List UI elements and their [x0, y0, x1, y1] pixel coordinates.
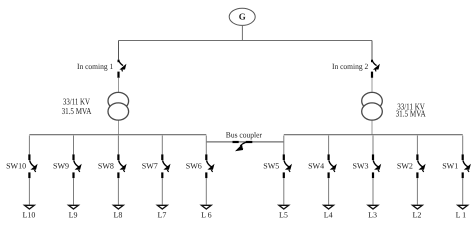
svg-text:31.5 MVA: 31.5 MVA — [396, 109, 426, 119]
svg-text:SW3: SW3 — [353, 161, 369, 170]
svg-text:SW8: SW8 — [98, 161, 114, 170]
svg-text:SW2: SW2 — [397, 161, 413, 170]
svg-text:SW7: SW7 — [142, 161, 158, 170]
svg-text:Bus coupler: Bus coupler — [226, 131, 263, 140]
svg-text:L 1: L 1 — [456, 211, 467, 220]
svg-text:SW1: SW1 — [442, 161, 458, 170]
svg-text:In coming 1: In coming 1 — [77, 62, 113, 71]
svg-text:L5: L5 — [279, 211, 288, 220]
svg-text:SW4: SW4 — [308, 161, 324, 170]
svg-text:SW10: SW10 — [6, 161, 26, 170]
svg-text:L 6: L 6 — [201, 211, 212, 220]
svg-text:L3: L3 — [368, 211, 377, 220]
svg-text:L10: L10 — [23, 211, 36, 220]
svg-text:L4: L4 — [324, 211, 333, 220]
svg-text:SW6: SW6 — [186, 161, 202, 170]
svg-text:L9: L9 — [69, 211, 78, 220]
svg-text:L8: L8 — [114, 211, 123, 220]
svg-text:L2: L2 — [413, 211, 422, 220]
svg-text:L7: L7 — [157, 211, 166, 220]
svg-text:G: G — [239, 12, 246, 22]
svg-text:SW9: SW9 — [53, 161, 69, 170]
svg-text:31.5 MVA: 31.5 MVA — [62, 106, 92, 116]
svg-text:In coming 2: In coming 2 — [332, 62, 368, 71]
svg-text:SW5: SW5 — [263, 161, 279, 170]
